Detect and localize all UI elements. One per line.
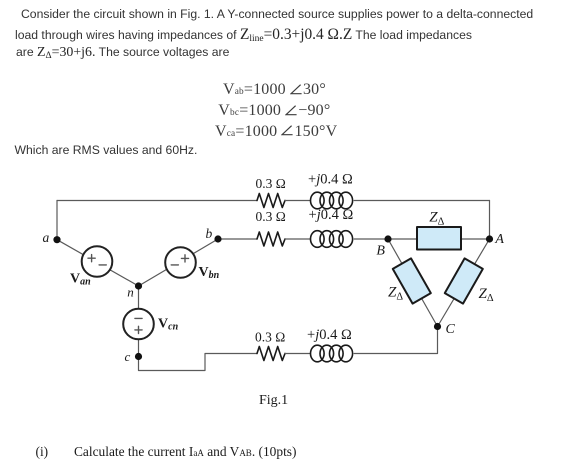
svg-text:+j0.4 Ω: +j0.4 Ω — [309, 207, 354, 223]
wire node c drop and bottom route — [139, 354, 258, 371]
node B — [384, 235, 391, 242]
question text — [74, 444, 296, 460]
svg-text:0.3 Ω: 0.3 Ω — [255, 330, 285, 345]
svg-text:+j0.4 Ω: +j0.4 Ω — [308, 172, 353, 188]
equation Vbc — [218, 102, 330, 120]
wire node b to line — [218, 238, 257, 240]
wire node a riser — [56, 201, 58, 240]
wire line c to node C — [354, 327, 437, 354]
wire top line right segment — [354, 200, 489, 202]
svg-text:A: A — [494, 232, 504, 247]
wire a to n — [57, 240, 139, 286]
svg-text:ZΔ: ZΔ — [479, 286, 494, 304]
node n — [135, 282, 142, 289]
wire line b between R and L — [285, 238, 311, 240]
source Vbn — [165, 247, 196, 278]
resistor 0.3 ohm line a — [257, 194, 285, 208]
figure caption Fig.1 — [259, 393, 288, 409]
source Van — [82, 246, 113, 277]
inductor +j0.4 ohm line c — [311, 345, 325, 362]
equation Vab — [223, 81, 326, 99]
load Z delta right rect — [445, 258, 483, 303]
inductor +j0.4 ohm line b — [311, 231, 325, 248]
equation Vca — [215, 123, 337, 141]
svg-text:c: c — [125, 349, 131, 364]
node c — [135, 353, 142, 360]
node C — [434, 323, 441, 330]
svg-text:Vbn: Vbn — [199, 265, 220, 281]
svg-text:Vcn: Vcn — [158, 317, 179, 333]
svg-text:a: a — [43, 230, 50, 245]
svg-text:B: B — [376, 244, 385, 259]
node b — [214, 235, 221, 242]
resistor 0.3 ohm line b — [257, 232, 285, 246]
wire B to A — [388, 238, 490, 240]
wire top line left segment — [57, 200, 257, 202]
wire B to C diagonal — [388, 239, 438, 327]
wire line b to node B — [354, 238, 388, 240]
paragraph RMS note — [15, 143, 198, 157]
resistor 0.3 ohm line c — [257, 347, 285, 361]
load Z delta top rect — [417, 227, 461, 250]
inductor +j0.4 ohm line a — [311, 192, 325, 209]
wire A to C diagonal — [438, 239, 490, 327]
node A — [486, 235, 493, 242]
svg-text:+j0.4 Ω: +j0.4 Ω — [307, 327, 352, 343]
svg-text:ZΔ: ZΔ — [388, 285, 403, 303]
question (i) — [36, 444, 49, 460]
svg-text:ZΔ: ZΔ — [429, 210, 444, 228]
node a — [53, 236, 60, 243]
paragraph line 3 — [16, 45, 229, 61]
svg-text:0.3 Ω: 0.3 Ω — [256, 176, 286, 191]
paragraph line 2 — [15, 26, 472, 44]
wire top line between R and L — [285, 200, 311, 202]
load Z delta left rect — [393, 258, 431, 303]
wire b to n — [139, 239, 219, 286]
svg-text:C: C — [446, 322, 456, 337]
svg-text:n: n — [127, 284, 134, 299]
svg-text:0.3 Ω: 0.3 Ω — [256, 209, 286, 224]
wire node A riser — [489, 201, 491, 240]
source Vcn — [123, 309, 154, 340]
wire n to c — [138, 286, 140, 357]
paragraph line 1 — [21, 7, 533, 21]
wire line c between R and L — [285, 353, 311, 355]
svg-text:b: b — [206, 226, 213, 241]
